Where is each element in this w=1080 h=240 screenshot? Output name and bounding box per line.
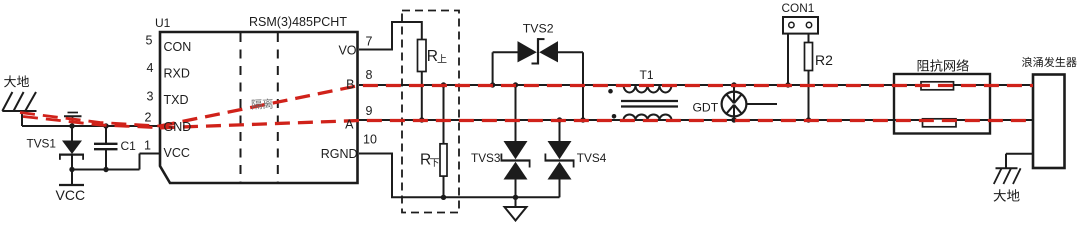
svg-text:GDT: GDT bbox=[692, 101, 718, 115]
svg-text:TVS2: TVS2 bbox=[523, 21, 554, 35]
svg-text:5: 5 bbox=[146, 34, 153, 48]
svg-text:B: B bbox=[346, 78, 354, 92]
svg-text:10: 10 bbox=[363, 133, 377, 147]
svg-text:RSM(3)485PCHT: RSM(3)485PCHT bbox=[249, 15, 347, 29]
svg-text:8: 8 bbox=[366, 68, 373, 82]
svg-text:TVS3: TVS3 bbox=[471, 151, 501, 165]
svg-text:CON1: CON1 bbox=[782, 1, 815, 15]
svg-text:T1: T1 bbox=[640, 68, 654, 82]
svg-text:GND: GND bbox=[164, 120, 192, 134]
svg-text:R: R bbox=[420, 151, 431, 168]
svg-text:1: 1 bbox=[144, 138, 151, 152]
svg-text:C1: C1 bbox=[121, 139, 137, 153]
svg-text:9: 9 bbox=[366, 104, 373, 118]
svg-text:7: 7 bbox=[366, 35, 373, 49]
svg-text:VCC: VCC bbox=[164, 146, 190, 160]
svg-text:RGND: RGND bbox=[321, 147, 358, 161]
svg-text:R2: R2 bbox=[815, 52, 833, 68]
svg-text:4: 4 bbox=[147, 61, 154, 75]
svg-text:2: 2 bbox=[145, 111, 152, 125]
svg-text:VO: VO bbox=[338, 43, 356, 57]
svg-text:CON: CON bbox=[164, 40, 192, 54]
svg-text:U1: U1 bbox=[155, 16, 171, 30]
svg-text:A: A bbox=[345, 117, 354, 131]
svg-text:RXD: RXD bbox=[164, 67, 190, 81]
svg-text:R: R bbox=[427, 48, 438, 65]
svg-text:TVS4: TVS4 bbox=[577, 151, 607, 165]
svg-text:VCC: VCC bbox=[56, 187, 86, 203]
svg-text:3: 3 bbox=[147, 90, 154, 104]
svg-text:TXD: TXD bbox=[164, 93, 189, 107]
svg-text:TVS1: TVS1 bbox=[26, 136, 56, 150]
